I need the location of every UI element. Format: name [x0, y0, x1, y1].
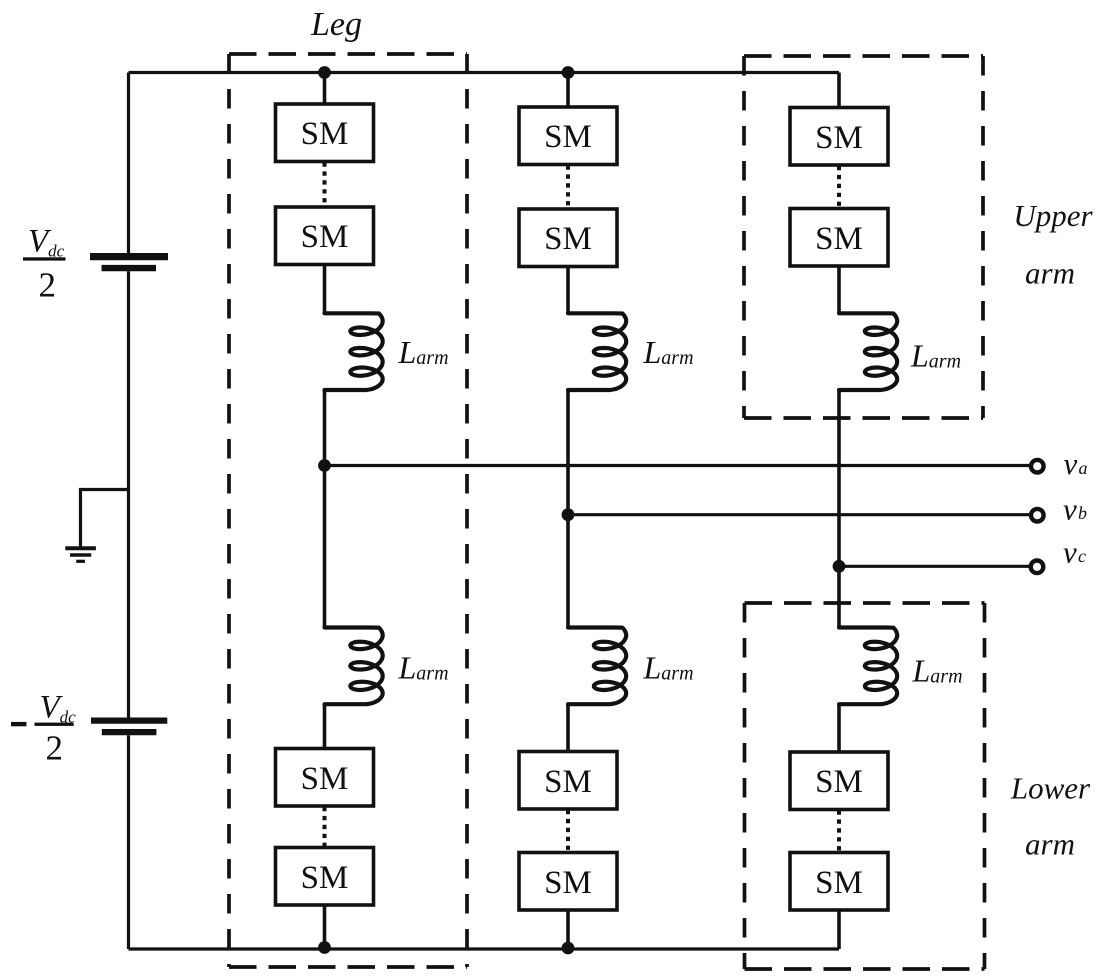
wire: leg b upper SM2 to coil [566, 267, 570, 314]
svg-text:b: b [1078, 503, 1087, 523]
SM box: leg b lower 1 [519, 752, 617, 810]
terminal va circle [1031, 460, 1044, 473]
wire: leg b upper arm connections [566, 73, 570, 110]
SM box: leg c lower 1 [790, 752, 888, 810]
label: -Vdc/2 (bottom source) [11, 722, 26, 726]
dashed box: Lower arm outline [745, 603, 985, 969]
svg-text:SM: SM [301, 860, 349, 896]
svg-text:SM: SM [301, 219, 349, 255]
svg-text:SM: SM [544, 764, 592, 800]
inductor Larm: leg b upper [568, 313, 626, 390]
node: leg b top junction [562, 66, 575, 79]
dotted link: leg b lower SM chain [566, 810, 570, 852]
svg-text:SM: SM [815, 764, 863, 800]
node: phase c junction [833, 560, 846, 573]
dotted link: leg a lower SM chain [323, 807, 327, 847]
svg-text:2: 2 [45, 728, 63, 767]
svg-text:v: v [1063, 492, 1077, 527]
svg-text:SM: SM [815, 865, 863, 901]
svg-text:arm: arm [1025, 827, 1075, 862]
ground symbol [65, 548, 96, 561]
wire: leg c lower coil to SM [837, 704, 841, 754]
svg-text:SM: SM [544, 119, 592, 155]
dotted link: leg c upper SM chain [837, 166, 841, 208]
svg-text:Leg: Leg [310, 6, 362, 43]
svg-text:SM: SM [301, 116, 349, 152]
svg-text:SM: SM [544, 221, 592, 257]
svg-text:Upper: Upper [1013, 198, 1093, 233]
wire: bottom DC bus [129, 947, 840, 950]
wire: leg a lower SM2 to bottom bus [323, 905, 327, 949]
wire: leg a lower coil to SM [323, 704, 327, 750]
node: phase a junction [318, 459, 331, 472]
svg-text:2: 2 [39, 266, 57, 305]
wire: leg c coil to node [837, 390, 841, 628]
wire: leg b lower coil to SM [566, 704, 570, 753]
wire: leg b coil to node [566, 390, 570, 628]
dotted link: leg b upper SM chain [566, 166, 570, 209]
svg-text:SM: SM [815, 221, 863, 257]
battery B1 short plate [102, 265, 157, 271]
wire: leg c upper SM2 to coil [837, 266, 841, 313]
SM box: leg b lower 2 [519, 853, 617, 911]
svg-text:SM: SM [301, 761, 349, 797]
svg-text:SM: SM [815, 120, 863, 156]
wire: leg b lower SM2 to bottom bus [566, 910, 570, 949]
inductor Larm: leg a upper [325, 313, 383, 390]
SM box: leg a upper 1 [276, 104, 374, 162]
wire: leg a upper arm connections [323, 73, 327, 107]
battery B2 (-Vdc/2) long plate [91, 717, 167, 723]
SM box: leg a lower 2 [276, 848, 374, 906]
wire: phase b output [568, 513, 1030, 516]
svg-text:c: c [1078, 546, 1086, 566]
svg-text:arm: arm [1025, 256, 1075, 291]
SM box: leg a upper 2 [276, 207, 374, 265]
node: leg b bottom junction [562, 942, 575, 955]
inductor Larm: leg c lower [839, 628, 897, 705]
dotted link: leg a upper SM chain [323, 163, 327, 207]
inductor Larm: leg b lower [568, 628, 626, 705]
wire: ground stub [81, 490, 129, 547]
wire: leg a coil to node [323, 390, 327, 628]
wire: left rail middle segment [127, 271, 130, 717]
SM box: leg c lower 2 [790, 853, 888, 911]
node: leg a top junction [318, 66, 331, 79]
inductor Larm: leg c upper [839, 313, 897, 390]
svg-text:a: a [1079, 458, 1088, 478]
wire: phase a output [325, 464, 1030, 467]
wire: top DC bus [129, 71, 840, 74]
dotted link: leg c lower SM chain [837, 811, 841, 852]
svg-text:SM: SM [544, 865, 592, 901]
wire: phase c output [839, 565, 1030, 568]
SM box: leg b upper 1 [519, 107, 617, 165]
svg-text:v: v [1063, 535, 1077, 570]
SM box: leg c upper 1 [790, 108, 888, 166]
terminal vb circle [1031, 509, 1044, 522]
wire: leg c upper arm connections [837, 73, 841, 110]
wire: leg c lower SM2 to bottom bus [837, 910, 841, 949]
battery B1 (Vdc/2) long plate [90, 253, 168, 260]
SM box: leg c upper 2 [790, 209, 888, 267]
svg-text:v: v [1064, 446, 1078, 481]
SM box: leg a lower 1 [276, 749, 374, 807]
dashed box: Leg outline [229, 54, 467, 967]
node: leg a bottom junction [318, 941, 331, 954]
dashed box: Upper arm outline [744, 56, 983, 418]
svg-text:Lower: Lower [1010, 771, 1091, 806]
SM box: leg b upper 2 [519, 209, 617, 267]
inductor Larm: leg a lower [325, 628, 383, 705]
wire: left rail upper segment [127, 73, 130, 254]
terminal vc circle [1031, 561, 1044, 574]
wire: leg a upper SM2 to coil [323, 265, 327, 314]
battery B2 short plate [102, 729, 157, 735]
node: phase b junction [562, 508, 575, 521]
wire: left rail lower segment [127, 735, 130, 949]
